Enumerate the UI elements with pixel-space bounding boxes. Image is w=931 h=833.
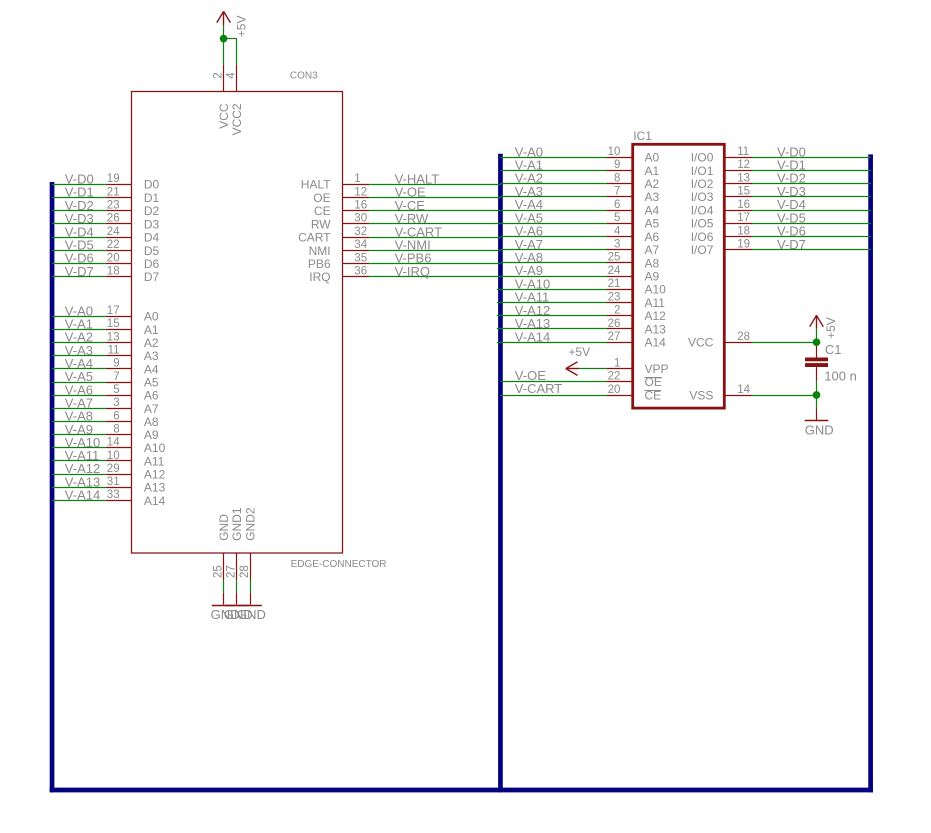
wire net V-A9 to bus (52, 422, 106, 437)
wire net V-D7 to bus (52, 264, 106, 279)
svg-text:EDGE-CONNECTOR: EDGE-CONNECTOR (291, 559, 387, 570)
svg-text:14: 14 (737, 384, 750, 396)
wire net V-D2 to bus (52, 198, 106, 213)
wire net V-OE to middle bus (500, 368, 606, 383)
svg-text:V-IRQ: V-IRQ (395, 264, 430, 279)
svg-text:8: 8 (614, 172, 620, 184)
svg-text:A8: A8 (645, 256, 660, 270)
svg-text:17: 17 (737, 212, 750, 224)
svg-text:GND2: GND2 (243, 507, 257, 541)
wire net V-D4 from IC1 to right bus (752, 197, 871, 212)
svg-text:I/O7: I/O7 (691, 243, 714, 257)
pin GND2 (28) of CON3 (239, 507, 258, 579)
wire net V-D5 to bus (52, 238, 106, 253)
svg-text:A8: A8 (144, 415, 159, 429)
svg-text:I/O3: I/O3 (691, 190, 714, 204)
svg-text:IRQ: IRQ (309, 270, 330, 284)
svg-text:A14: A14 (645, 336, 667, 350)
svg-text:7: 7 (113, 371, 119, 383)
svg-text:21: 21 (107, 186, 120, 198)
bus segment bottom horizontal (50, 788, 873, 793)
wire net V-A0 from middle bus to IC1 (500, 144, 606, 159)
svg-text:A13: A13 (645, 322, 667, 336)
ground symbol GND under CON3 #1 (211, 593, 240, 622)
svg-text:A9: A9 (144, 428, 159, 442)
pin A12 (29) of CON3 (106, 463, 166, 482)
svg-text:33: 33 (107, 489, 120, 501)
svg-text:9: 9 (113, 358, 119, 370)
svg-text:+5V: +5V (235, 16, 249, 38)
junction on +5V net (220, 35, 228, 43)
pin I/O3 (15) of IC1 (691, 186, 752, 205)
svg-text:VCC: VCC (217, 103, 231, 129)
pin A1 (15) of CON3 (106, 318, 159, 337)
svg-text:VCC2: VCC2 (230, 103, 244, 135)
wire GND1 to ground (236, 580, 238, 593)
svg-text:18: 18 (107, 266, 120, 278)
pin I/O6 (18) of IC1 (691, 225, 752, 244)
pin D1 (21) of CON3 (106, 186, 160, 205)
wire net V-D4 to bus (52, 224, 106, 239)
pin D3 (26) of CON3 (106, 213, 160, 232)
wire net V-A13 from middle bus to IC1 (497, 316, 607, 331)
svg-text:24: 24 (608, 265, 621, 277)
pin D0 (19) of CON3 (106, 173, 160, 192)
wire VSS net to C1/GND (752, 395, 816, 397)
svg-text:27: 27 (608, 331, 621, 343)
wire net V-D6 to bus (52, 251, 106, 266)
wire net V-PB6 to middle bus (369, 251, 501, 266)
svg-text:I/O4: I/O4 (691, 204, 714, 218)
wire net V-A12 from middle bus to IC1 (497, 303, 607, 318)
junction node VCC/C1 (813, 338, 821, 346)
svg-text:28: 28 (239, 565, 251, 578)
pin A6 (4) of IC1 (606, 225, 659, 244)
wire +5V supply to VCC/VCC2 (224, 25, 237, 64)
pin CE (20) of IC1 (606, 384, 661, 403)
pin GND (25) of CON3 (212, 514, 231, 580)
pin A1 (9) of IC1 (606, 159, 659, 178)
svg-text:I/O1: I/O1 (691, 164, 714, 178)
svg-text:31: 31 (107, 476, 120, 488)
wire net V-A6 from middle bus to IC1 (500, 224, 606, 239)
pin I/O0 (11) of IC1 (691, 146, 752, 165)
svg-text:CE: CE (314, 204, 331, 218)
svg-text:13: 13 (107, 331, 120, 343)
svg-text:A14: A14 (144, 494, 166, 508)
wire net V-A6 to bus (52, 382, 106, 397)
svg-text:18: 18 (737, 225, 750, 237)
wire net V-A14 to bus (52, 488, 106, 503)
svg-text:21: 21 (608, 278, 621, 290)
svg-text:6: 6 (113, 410, 119, 422)
wire net V-A1 from middle bus to IC1 (500, 158, 606, 173)
svg-text:V-D7: V-D7 (777, 237, 806, 252)
svg-text:A3: A3 (144, 349, 159, 363)
wire +5V to VCC junction (816, 329, 818, 342)
svg-text:35: 35 (354, 252, 367, 264)
svg-text:I/O6: I/O6 (691, 230, 714, 244)
svg-text:GND1: GND1 (230, 507, 244, 541)
svg-text:20: 20 (107, 252, 120, 264)
wire net V-A7 from middle bus to IC1 (500, 237, 606, 252)
svg-text:RW: RW (311, 217, 331, 231)
wire net V-D2 from IC1 to right bus (752, 171, 871, 186)
pin CART (32) of CON3 (298, 226, 369, 245)
svg-text:19: 19 (107, 173, 120, 185)
wire net V-A10 to bus (52, 435, 106, 450)
supply symbol +5V (top) (217, 11, 249, 37)
pin A11 (23) of IC1 (606, 291, 665, 310)
pin A5 (5) of IC1 (606, 212, 659, 231)
svg-text:+5V: +5V (568, 345, 590, 359)
svg-text:14: 14 (107, 437, 120, 449)
svg-text:A11: A11 (645, 296, 666, 310)
wire net V-RW to middle bus (369, 211, 501, 226)
supply symbol +5V (VPP, pointing left) (566, 345, 590, 376)
wire net V-D7 from IC1 to right bus (752, 237, 871, 252)
pin A4 (6) of IC1 (606, 199, 659, 218)
wire net V-A4 to bus (52, 356, 106, 371)
wire net V-A9 from middle bus to IC1 (500, 263, 606, 278)
ground symbol GND under CON3 #2 (224, 593, 253, 622)
pin A6 (5) of CON3 (106, 384, 159, 403)
pin A2 (13) of CON3 (106, 331, 159, 350)
pin D5 (22) of CON3 (106, 239, 160, 258)
pin I/O7 (19) of IC1 (691, 239, 752, 258)
svg-text:13: 13 (737, 172, 750, 184)
svg-text:D4: D4 (144, 231, 160, 245)
svg-text:A4: A4 (144, 362, 159, 376)
pin VSS (14) of IC1 (689, 384, 752, 403)
svg-text:27: 27 (226, 565, 238, 578)
svg-text:25: 25 (212, 565, 224, 578)
bus segment left vertical (50, 182, 55, 792)
wire net V-CART to middle bus (369, 224, 501, 239)
wire net V-D1 to bus (52, 185, 106, 200)
connector CON3 body (132, 92, 343, 554)
svg-text:V-D7: V-D7 (65, 264, 94, 279)
svg-text:A6: A6 (144, 389, 159, 403)
svg-text:+5V: +5V (824, 317, 838, 339)
svg-text:A0: A0 (645, 151, 660, 165)
pin A14 (27) of IC1 (606, 331, 666, 350)
svg-text:HALT: HALT (301, 178, 331, 192)
wire net V-A12 to bus (52, 461, 106, 476)
pin OE (12) of CON3 (313, 186, 369, 205)
svg-text:1: 1 (354, 173, 360, 185)
svg-text:25: 25 (608, 252, 621, 264)
svg-text:A7: A7 (645, 243, 660, 257)
svg-text:11: 11 (108, 345, 120, 357)
pin A10 (21) of IC1 (606, 278, 666, 297)
wire net V-A8 to bus (52, 409, 106, 424)
wire net V-A7 to bus (52, 396, 106, 411)
svg-text:D7: D7 (144, 270, 160, 284)
wire VPP to +5V (579, 368, 606, 370)
svg-text:9: 9 (614, 159, 620, 171)
pin D2 (23) of CON3 (106, 200, 160, 219)
svg-text:GND: GND (237, 607, 266, 622)
wire net V-A0 to bus (52, 303, 106, 318)
pin A2 (8) of IC1 (606, 172, 659, 191)
svg-text:A13: A13 (144, 481, 166, 495)
svg-text:12: 12 (737, 159, 750, 171)
wire net V-A3 to bus (52, 343, 106, 358)
wire net V-D5 from IC1 to right bus (752, 210, 871, 225)
svg-text:GND: GND (217, 514, 231, 541)
supply symbol +5V (C1) (810, 315, 838, 339)
wire net V-D0 from IC1 to right bus (752, 144, 871, 159)
svg-text:D1: D1 (144, 191, 160, 205)
pin D6 (20) of CON3 (106, 252, 160, 271)
wire net V-HALT to middle bus (369, 171, 501, 186)
pin A10 (14) of CON3 (106, 437, 166, 456)
svg-text:A9: A9 (645, 270, 660, 284)
svg-text:2: 2 (212, 72, 224, 78)
pin I/O5 (17) of IC1 (691, 212, 752, 231)
svg-text:GND: GND (805, 423, 834, 438)
svg-text:D0: D0 (144, 178, 160, 192)
svg-text:23: 23 (608, 291, 621, 303)
svg-text:C1: C1 (825, 342, 842, 357)
svg-text:17: 17 (107, 305, 120, 317)
svg-text:A7: A7 (144, 402, 159, 416)
wire net V-A11 from middle bus to IC1 (497, 290, 607, 305)
svg-text:34: 34 (354, 239, 367, 251)
svg-text:V-A14: V-A14 (515, 329, 550, 344)
svg-text:16: 16 (737, 199, 750, 211)
wire net V-A2 from middle bus to IC1 (500, 171, 606, 186)
pin PB6 (35) of CON3 (308, 252, 369, 271)
svg-text:8: 8 (113, 424, 119, 436)
svg-text:24: 24 (107, 226, 120, 238)
svg-text:D3: D3 (144, 217, 160, 231)
pin A5 (7) of CON3 (106, 371, 159, 390)
svg-text:4: 4 (226, 72, 238, 79)
pin A12 (2) of IC1 (606, 305, 666, 324)
wire net V-D3 to bus (52, 211, 106, 226)
svg-text:5: 5 (113, 384, 119, 396)
svg-text:10: 10 (107, 450, 120, 462)
pin A9 (8) of CON3 (106, 424, 159, 443)
pin A0 (10) of IC1 (606, 146, 659, 165)
svg-text:1: 1 (614, 357, 620, 369)
pin D4 (24) of CON3 (106, 226, 160, 245)
svg-text:12: 12 (354, 186, 367, 198)
svg-text:A0: A0 (144, 310, 159, 324)
pin D7 (18) of CON3 (106, 266, 160, 285)
svg-text:OE: OE (313, 191, 330, 205)
svg-text:I/O2: I/O2 (691, 177, 714, 191)
svg-text:15: 15 (737, 186, 750, 198)
svg-text:I/O0: I/O0 (691, 151, 714, 165)
pin A11 (10) of CON3 (106, 450, 165, 469)
ground symbol GND (C1) (805, 408, 834, 437)
junction node VSS/C1 (813, 391, 821, 399)
wire net V-A13 to bus (52, 474, 106, 489)
pin A13 (31) of CON3 (106, 476, 166, 495)
wire VCC net to C1 (752, 342, 816, 344)
wire net V-A4 from middle bus to IC1 (500, 197, 606, 212)
svg-text:A6: A6 (645, 230, 660, 244)
svg-text:A11: A11 (144, 454, 165, 468)
wire net V-CE to middle bus (369, 198, 501, 213)
svg-text:7: 7 (614, 186, 620, 198)
svg-text:A5: A5 (144, 375, 159, 389)
pin GND1 (27) of CON3 (226, 507, 245, 579)
pin VPP (1) of IC1 (606, 357, 668, 376)
wire net V-D0 to bus (52, 171, 106, 186)
svg-text:A12: A12 (144, 468, 166, 482)
svg-text:A10: A10 (144, 441, 166, 455)
wire net V-OE to middle bus (369, 185, 501, 200)
pin RW (30) of CON3 (311, 213, 369, 232)
svg-text:A2: A2 (144, 336, 159, 350)
svg-text:10: 10 (608, 146, 621, 158)
svg-text:A12: A12 (645, 309, 667, 323)
pin A0 (17) of CON3 (106, 305, 159, 324)
wire net V-A5 from middle bus to IC1 (500, 210, 606, 225)
pin A3 (11) of CON3 (106, 345, 159, 364)
wire net V-A10 from middle bus to IC1 (497, 276, 607, 291)
pin A13 (26) of IC1 (606, 318, 666, 337)
svg-text:11: 11 (737, 146, 749, 158)
svg-text:PB6: PB6 (308, 257, 331, 271)
wire GND to ground (223, 580, 225, 593)
svg-text:26: 26 (608, 318, 621, 330)
pin A14 (33) of CON3 (106, 489, 166, 508)
svg-text:A3: A3 (645, 190, 660, 204)
svg-text:20: 20 (608, 384, 621, 396)
svg-text:5: 5 (614, 212, 620, 224)
bus segment middle vertical (498, 154, 503, 793)
svg-text:CART: CART (298, 231, 331, 245)
svg-text:23: 23 (107, 200, 120, 212)
wire net V-A11 to bus (52, 448, 106, 463)
pin VCC (28) of IC1 (688, 331, 752, 350)
wire net V-CART to middle bus (500, 381, 606, 396)
svg-text:3: 3 (113, 397, 119, 409)
svg-text:VSS: VSS (689, 388, 713, 402)
svg-text:15: 15 (107, 318, 120, 330)
svg-text:V-A14: V-A14 (65, 488, 100, 503)
wire net V-D6 from IC1 to right bus (752, 224, 871, 239)
pin I/O2 (13) of IC1 (691, 172, 752, 191)
svg-text:22: 22 (608, 371, 621, 383)
svg-text:30: 30 (354, 213, 367, 225)
capacitor C1 100 n (805, 342, 857, 383)
svg-text:32: 32 (354, 226, 367, 238)
ground symbol GND under CON3 #3 (237, 593, 266, 622)
svg-text:A1: A1 (645, 164, 660, 178)
svg-text:A4: A4 (645, 204, 660, 218)
wire GND2 to ground (250, 580, 252, 593)
svg-text:D6: D6 (144, 257, 160, 271)
svg-text:26: 26 (107, 213, 120, 225)
svg-text:I/O5: I/O5 (691, 217, 714, 231)
wire net V-D3 from IC1 to right bus (752, 184, 871, 199)
wire net V-A3 from middle bus to IC1 (500, 184, 606, 199)
pin A7 (3) of IC1 (606, 239, 659, 258)
wire C1 to VSS junction (816, 381, 818, 408)
svg-text:VPP: VPP (645, 362, 669, 376)
svg-text:IC1: IC1 (633, 129, 652, 143)
svg-text:36: 36 (354, 266, 367, 278)
svg-text:A10: A10 (645, 283, 667, 297)
wire net V-A1 to bus (52, 317, 106, 332)
svg-text:D2: D2 (144, 204, 160, 218)
svg-text:29: 29 (107, 463, 120, 475)
svg-text:NMI: NMI (309, 244, 331, 258)
pin CE (16) of CON3 (314, 200, 369, 219)
wire net V-A14 from middle bus to IC1 (497, 329, 607, 344)
wire net V-A8 from middle bus to IC1 (500, 250, 606, 265)
svg-text:VCC: VCC (688, 336, 714, 350)
svg-text:A2: A2 (645, 177, 660, 191)
wire net V-NMI to middle bus (369, 238, 501, 253)
pin VCC2 (4) of CON3 (226, 65, 245, 136)
svg-text:6: 6 (614, 199, 620, 211)
wire net V-A5 to bus (52, 369, 106, 384)
pin A7 (3) of CON3 (106, 397, 159, 416)
pin OE (22) of IC1 (606, 371, 661, 390)
svg-text:22: 22 (107, 239, 120, 251)
pin HALT (1) of CON3 (301, 173, 369, 192)
wire net V-A2 to bus (52, 330, 106, 345)
wire net V-IRQ to middle bus (369, 264, 501, 279)
svg-text:A5: A5 (645, 217, 660, 231)
pin A9 (24) of IC1 (606, 265, 659, 284)
svg-text:4: 4 (614, 225, 621, 237)
IC U1 (IC1) body (633, 144, 725, 408)
pin I/O1 (12) of IC1 (691, 159, 752, 178)
svg-text:A1: A1 (144, 323, 159, 337)
pin A8 (25) of IC1 (606, 252, 659, 271)
bus segment right vertical (868, 154, 873, 792)
pin A4 (9) of CON3 (106, 358, 159, 377)
svg-text:16: 16 (354, 200, 367, 212)
pin A3 (7) of IC1 (606, 186, 659, 205)
wire net V-D1 from IC1 to right bus (752, 158, 871, 173)
pin NMI (34) of CON3 (309, 239, 370, 258)
pin VCC (2) of CON3 (212, 65, 231, 129)
pin I/O4 (16) of IC1 (691, 199, 752, 218)
svg-text:28: 28 (737, 331, 750, 343)
svg-text:3: 3 (614, 239, 620, 251)
svg-text:2: 2 (614, 305, 620, 317)
svg-text:D5: D5 (144, 244, 160, 258)
svg-text:19: 19 (737, 239, 750, 251)
pin A8 (6) of CON3 (106, 410, 159, 429)
svg-text:CON3: CON3 (290, 70, 318, 81)
svg-text:100 n: 100 n (824, 368, 857, 383)
svg-text:V-CART: V-CART (515, 381, 562, 396)
pin IRQ (36) of CON3 (309, 266, 369, 285)
